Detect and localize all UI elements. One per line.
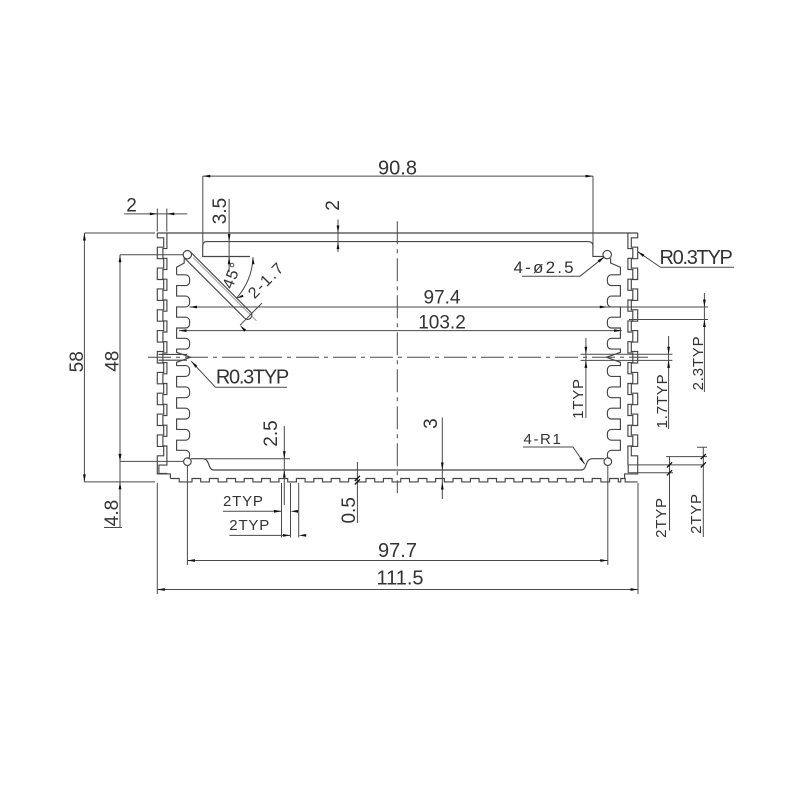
dim 2TYP bl2 line — [229, 534, 290, 536]
svg-text:1TYP: 1TYP — [570, 378, 587, 419]
dim 45deg arc — [237, 257, 254, 298]
svg-text:97.4: 97.4 — [424, 288, 461, 309]
right bottom slot lower line — [628, 472, 673, 474]
top-right screw hole circle — [603, 250, 611, 258]
left inner heatsink fins — [177, 275, 191, 459]
svg-text:0.5: 0.5 — [339, 497, 360, 523]
dim 2.5 extension — [204, 458, 290, 460]
top-right wall step — [611, 258, 621, 275]
dim 1.7TYP line — [668, 336, 670, 429]
dim 2TYP br2 ticks — [701, 454, 706, 459]
dim 97.4 arrows — [190, 306, 198, 309]
svg-text:2: 2 — [126, 196, 137, 217]
label 2-1.7 leader — [240, 303, 262, 325]
svg-text:2.3TYP: 2.3TYP — [690, 336, 707, 391]
bottom inner surface with corner steps — [191, 459, 604, 470]
45-degree slot lower edge — [184, 258, 244, 318]
svg-text:4-R1: 4-R1 — [524, 431, 563, 448]
dim 97.7 line — [187, 560, 607, 562]
label 4-diam2.5 underline+leader — [522, 257, 605, 276]
dim 4.8 arrows — [119, 454, 122, 462]
svg-text:3: 3 — [421, 418, 442, 429]
dim 1TYP arrows — [585, 347, 588, 355]
vertical centerline — [396, 221, 398, 493]
svg-text:4.8: 4.8 — [102, 500, 123, 526]
dim 1TYP line — [585, 338, 587, 418]
dim 2 top-left extensions — [157, 209, 167, 232]
dim 2 top-left line — [124, 213, 187, 215]
top-left screw hole circle — [183, 251, 191, 259]
svg-text:R0.3TYP: R0.3TYP — [660, 247, 733, 269]
dim 45deg arrows — [252, 257, 255, 264]
dim 2TYP br2 ext — [666, 447, 707, 456]
dim 111.5 arrows — [157, 588, 165, 591]
dim 3 line — [441, 418, 443, 500]
right wall outer fins — [625, 233, 638, 479]
dim 48 arrows — [119, 255, 122, 263]
dim 2.3TYP arrows — [703, 300, 706, 308]
bottom-left screw hole circle — [184, 458, 192, 466]
right inner heatsink fins — [606, 275, 620, 459]
svg-text:R0.3TYP: R0.3TYP — [216, 367, 289, 389]
svg-text:2: 2 — [323, 200, 344, 211]
dim 97.7 arrows — [187, 559, 195, 562]
dim 111.5 line — [157, 589, 638, 591]
label 4-R1 arrow — [579, 457, 584, 464]
dim 103.2 arrows — [179, 329, 187, 332]
label R0.3TYP top-right arrow — [638, 252, 645, 257]
horizontal centerline — [148, 356, 648, 358]
svg-text:97.7: 97.7 — [378, 540, 417, 562]
dim 2TYP bl extension lines — [282, 483, 299, 538]
dim 2 top-center arrows — [337, 226, 340, 234]
svg-text:111.5: 111.5 — [376, 568, 423, 590]
left center slot lines — [159, 354, 188, 360]
dim 4.8 line — [104, 454, 122, 528]
dim 48 line — [119, 255, 121, 462]
right bottom slot floor — [627, 465, 629, 473]
label R0.3TYP left arrow — [191, 361, 197, 367]
svg-text:58: 58 — [67, 351, 88, 372]
45-degree slot centerline — [193, 258, 256, 321]
dim 2TYP br1 line — [669, 456, 671, 530]
dim 2 top-center line — [337, 220, 339, 253]
svg-text:4-ø2.5: 4-ø2.5 — [514, 258, 576, 277]
dim 0.5 line — [356, 462, 358, 523]
dim 58 extensions — [84, 233, 155, 482]
dim 2TYP bl1 line — [223, 510, 282, 512]
svg-text:103.2: 103.2 — [418, 313, 466, 334]
svg-text:2TYP: 2TYP — [223, 493, 264, 510]
dim 2TYP bl2 arrows — [283, 534, 291, 537]
bottom-right screw hole circle — [604, 458, 612, 466]
svg-text:2TYP: 2TYP — [229, 517, 270, 534]
dim 58 arrows — [83, 233, 86, 241]
dim 0.5 ticks — [355, 476, 360, 481]
dim 2.3TYP line — [703, 293, 705, 392]
right wall inner zigzag — [628, 233, 633, 465]
dim 2.5 arrows — [283, 451, 286, 459]
top-left wall step — [177, 258, 185, 274]
left wall inner zigzag — [159, 233, 167, 474]
dim 97.7 extensions — [187, 466, 607, 565]
label 2-1.7 arrow — [240, 325, 246, 331]
left wall outer fins — [157, 233, 170, 479]
svg-text:1.7TYP: 1.7TYP — [654, 374, 671, 429]
svg-text:90.8: 90.8 — [378, 158, 417, 180]
top inner surface — [203, 242, 604, 257]
45-degree slot upper edge — [190, 252, 251, 312]
label R0.3TYP top-right underline+leader — [638, 252, 735, 268]
svg-text:48: 48 — [103, 351, 124, 372]
bottom serrated surface — [170, 479, 637, 482]
svg-text:2TYP: 2TYP — [653, 497, 670, 538]
dim 97.4 line — [190, 306, 709, 308]
dim 111.5 extensions — [157, 483, 638, 594]
dim 1.7TYP arrows — [667, 347, 670, 355]
dim 2TYP br1 ticks — [667, 462, 672, 467]
dim 2TYP bl1 arrows — [274, 510, 282, 513]
top outer surface — [157, 232, 637, 234]
svg-text:3.5: 3.5 — [210, 198, 231, 224]
label 4-R1 underline+leader — [523, 447, 585, 464]
dim 90.8 extension lines — [203, 176, 593, 246]
dim 48 extensions — [120, 255, 184, 462]
dim 90.8 arrows — [203, 175, 211, 178]
right center slot lines — [581, 354, 673, 360]
dim 2.5 line — [283, 426, 285, 505]
dim 2TYP br2 line — [702, 447, 704, 537]
svg-text:2.5: 2.5 — [261, 420, 282, 446]
dim 90.8 line — [203, 175, 593, 177]
label R0.3TYP left underline+leader — [191, 361, 287, 387]
dim 2 top-left arrows — [150, 213, 158, 216]
45-degree slot end cap — [245, 312, 252, 319]
dim 58 line — [83, 233, 85, 482]
svg-text:2TYP: 2TYP — [688, 493, 705, 534]
dim 3.5 line — [228, 199, 230, 272]
label 4-diam2.5 arrow — [598, 257, 605, 263]
dim 3.5 arrows — [228, 234, 231, 242]
dim 3 arrows — [441, 463, 444, 471]
right bottom slot upper line — [628, 464, 704, 466]
dim 2.3TYP ext — [629, 319, 708, 321]
dim 103.2 line — [179, 330, 622, 332]
